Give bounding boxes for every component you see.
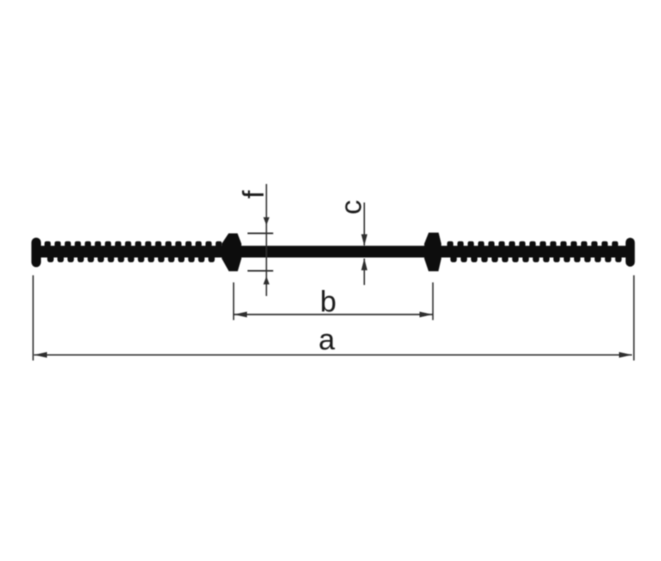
svg-text:a: a — [318, 324, 335, 357]
svg-text:f: f — [237, 190, 270, 199]
svg-text:c: c — [335, 200, 368, 215]
svg-text:b: b — [320, 286, 336, 319]
